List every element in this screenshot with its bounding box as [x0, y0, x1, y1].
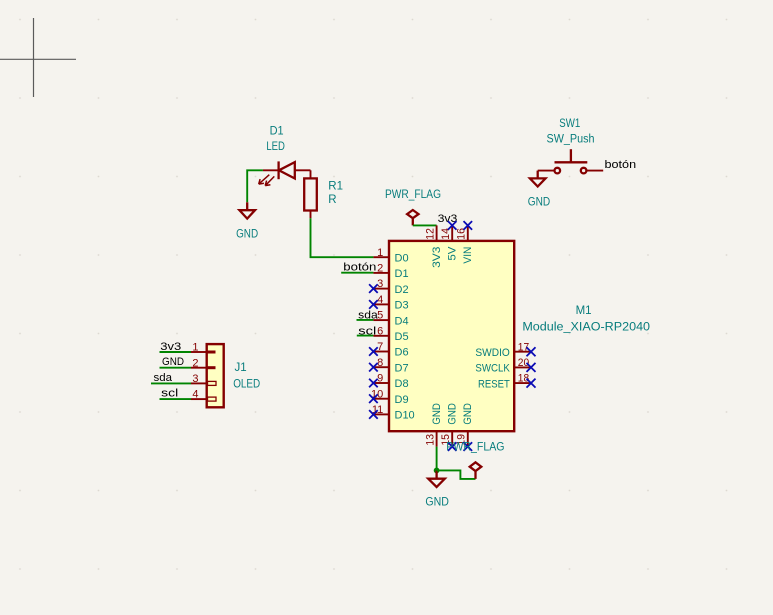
J1 pin 2	[191, 357, 216, 369]
label botón (net at SW1 pin 2)	[605, 159, 637, 171]
svg-text:D8: D8	[395, 378, 409, 390]
svg-text:sda: sda	[154, 372, 173, 384]
svg-text:D5: D5	[395, 331, 409, 343]
M1 pin 3 (D2)	[369, 278, 408, 296]
SW1 reference label	[559, 118, 580, 130]
label scl (net to M1 pin 6)	[358, 325, 376, 337]
svg-text:SW1: SW1	[559, 118, 580, 130]
svg-text:J1: J1	[235, 362, 247, 374]
svg-text:3V3: 3V3	[431, 247, 443, 268]
svg-text:GND: GND	[528, 197, 550, 209]
J1 value label OLED	[233, 378, 260, 390]
R1 reference label	[328, 180, 343, 192]
svg-text:GND: GND	[236, 229, 258, 241]
J1 pin 3	[191, 373, 216, 385]
svg-text:2: 2	[192, 357, 198, 369]
M1 pin 10 (D9)	[369, 388, 408, 406]
M1 pin 4 (D3)	[369, 294, 408, 312]
M1 pin 14 (5V)	[440, 221, 459, 261]
M1 pin 1 (D0)	[373, 247, 408, 265]
svg-text:9: 9	[377, 373, 383, 385]
M1 pin 13 (GND)	[424, 403, 443, 447]
svg-text:Module_XIAO-RP2040: Module_XIAO-RP2040	[522, 322, 650, 334]
svg-text:3: 3	[192, 373, 198, 385]
wire for sda label at M1 pin 5	[357, 319, 374, 321]
M1 pin 17 (SWDIO)	[475, 341, 535, 359]
junction on GND net	[434, 468, 440, 474]
svg-text:GND: GND	[447, 403, 459, 425]
M1 pin 2 (D1)	[373, 263, 408, 281]
M1 pin 7 (D6)	[369, 341, 408, 359]
J1 pin 1	[191, 342, 216, 354]
M1 pin 15 (GND)	[440, 403, 459, 451]
wire junction to bottom PWR_FLAG	[437, 470, 476, 479]
svg-text:5V: 5V	[447, 246, 459, 261]
svg-text:D10: D10	[395, 410, 415, 422]
svg-text:4: 4	[377, 294, 383, 306]
svg-text:6: 6	[377, 325, 383, 337]
sheet origin crosshair	[0, 18, 76, 97]
wire for botón label at M1 pin 2	[341, 272, 373, 274]
svg-text:SWDIO: SWDIO	[475, 347, 510, 359]
svg-text:GND: GND	[162, 356, 184, 368]
svg-text:14: 14	[440, 228, 452, 240]
wire from D1 cathode to GND corner	[247, 170, 263, 202]
connector J1 body	[207, 344, 224, 407]
M1 pin 5 (D4)	[373, 310, 408, 328]
svg-text:D7: D7	[395, 362, 409, 374]
M1 pin 11 (D10)	[369, 404, 415, 422]
module M1 Module_XIAO-RP2040 body	[389, 241, 514, 431]
svg-text:D1: D1	[270, 126, 284, 138]
label sda (J1 pin 3)	[154, 372, 173, 384]
M1 pin 19 (GND)	[456, 403, 475, 451]
svg-text:8: 8	[377, 357, 383, 369]
svg-text:R1: R1	[328, 180, 343, 192]
LED D1 reference label	[270, 126, 284, 138]
svg-text:GND: GND	[425, 496, 449, 508]
svg-text:7: 7	[377, 341, 383, 353]
wire for scl label at J1 pin 4	[160, 398, 192, 400]
PWR_FLAG (bottom) name label	[446, 442, 504, 454]
wire from R1 to M1 pin 1	[311, 218, 374, 257]
M1 pin 8 (D7)	[369, 357, 408, 375]
M1 reference label	[576, 305, 592, 317]
wire for 3v3 label at J1 pin 1	[160, 351, 192, 353]
svg-text:D3: D3	[395, 300, 409, 312]
svg-text:1: 1	[192, 342, 198, 354]
J1 reference label	[235, 362, 247, 374]
label 3v3 (net at M1 pin 12)	[438, 213, 458, 225]
svg-text:GND: GND	[462, 403, 474, 425]
wire for scl label at M1 pin 6	[357, 335, 374, 337]
svg-text:2: 2	[377, 263, 383, 275]
J1 pin 4	[191, 389, 216, 401]
svg-text:4: 4	[192, 389, 198, 401]
PWR_FLAG (top) name label	[385, 189, 441, 201]
svg-text:3: 3	[377, 278, 383, 290]
svg-text:D0: D0	[395, 252, 409, 264]
label sda (net to M1 pin 5)	[358, 310, 378, 322]
svg-text:VIN: VIN	[462, 247, 474, 264]
LED D1 value label	[266, 141, 285, 153]
svg-text:D2: D2	[395, 284, 409, 296]
M1 pin 16 (VIN)	[456, 221, 475, 264]
R1 value label	[328, 194, 336, 206]
ground (below M1)	[425, 470, 449, 508]
svg-text:PWR_FLAG: PWR_FLAG	[446, 442, 504, 454]
svg-text:SW_Push: SW_Push	[547, 134, 595, 146]
M1 pin 18 (RESET)	[478, 373, 536, 391]
svg-text:LED: LED	[266, 141, 285, 153]
M1 pin 6 (D5)	[373, 325, 408, 343]
svg-text:SWCLK: SWCLK	[475, 363, 510, 375]
svg-text:R: R	[328, 194, 336, 206]
wire M1 pin 13 to junction	[436, 447, 438, 471]
wire for GND label at J1 pin 2	[160, 367, 192, 369]
label 3v3 (J1 pin 1)	[160, 341, 181, 353]
M1 value label Module_XIAO-RP2040	[522, 322, 650, 334]
svg-text:D9: D9	[395, 394, 409, 406]
svg-text:scl: scl	[161, 387, 178, 399]
svg-text:PWR_FLAG: PWR_FLAG	[385, 189, 441, 201]
power flag PWR_FLAG (GND net)	[470, 462, 482, 479]
wire from PWR_FLAG to M1 pin 12	[413, 224, 437, 226]
svg-text:OLED: OLED	[233, 378, 260, 390]
ground (below SW1)	[528, 171, 550, 209]
LED D1 symbol	[259, 161, 311, 185]
svg-text:D1: D1	[395, 268, 409, 280]
svg-text:3v3: 3v3	[160, 341, 181, 353]
resistor R1	[304, 170, 317, 218]
svg-text:12: 12	[424, 228, 436, 240]
svg-text:RESET: RESET	[478, 378, 510, 390]
svg-text:13: 13	[424, 434, 436, 446]
svg-text:M1: M1	[576, 305, 592, 317]
svg-text:16: 16	[456, 228, 468, 240]
label botón (net to M1 pin 2)	[343, 262, 376, 274]
label scl (J1 pin 4)	[161, 387, 178, 399]
M1 pin 9 (D8)	[369, 373, 408, 391]
switch SW1 symbol	[538, 149, 604, 173]
power flag PWR_FLAG (3v3 net)	[407, 210, 418, 225]
M1 pin 12 (3V3)	[424, 225, 443, 268]
svg-text:D6: D6	[395, 347, 409, 359]
svg-text:GND: GND	[431, 403, 443, 425]
ground (below D1)	[236, 202, 258, 240]
wire for sda label at J1 pin 3	[151, 382, 191, 384]
SW1 value label SW_Push	[547, 134, 595, 146]
label GND (J1 pin 2)	[162, 356, 184, 368]
svg-text:D4: D4	[395, 315, 409, 327]
svg-text:botón: botón	[605, 159, 637, 171]
svg-text:1: 1	[377, 247, 383, 259]
svg-text:5: 5	[377, 310, 383, 322]
M1 pin 20 (SWCLK)	[475, 357, 535, 375]
